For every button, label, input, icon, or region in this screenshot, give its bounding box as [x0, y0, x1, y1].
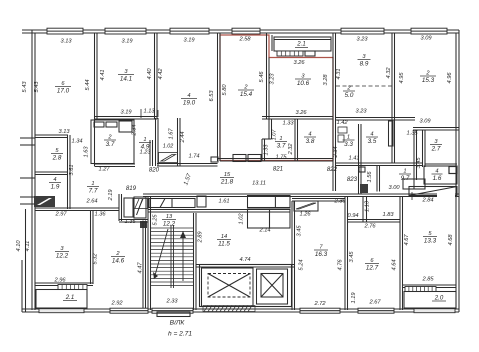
svg-text:h = 2.71: h = 2.71: [168, 331, 192, 338]
svg-text:4.67: 4.67: [404, 234, 410, 246]
stair steps: [151, 225, 194, 288]
svg-text:2.19: 2.19: [108, 189, 114, 202]
svg-text:3.26: 3.26: [295, 110, 307, 116]
room14 bottom wall: [196, 264, 295, 266]
wall 9.7 left: [376, 166, 378, 192]
svg-text:1.6: 1.6: [433, 175, 442, 182]
door gap room5: [437, 193, 455, 197]
svg-text:4: 4: [53, 177, 56, 183]
wall red rooms1-4 left: [268, 119, 270, 139]
svg-text:1.27: 1.27: [98, 167, 110, 173]
wall room3/room4: [154, 33, 156, 119]
svg-text:3.09: 3.09: [420, 36, 432, 42]
outer right wall: [455, 33, 457, 309]
tick room5 door: [411, 192, 413, 200]
svg-text:0.94: 0.94: [347, 213, 358, 219]
wall rooms 12.2/14.6: [90, 211, 92, 285]
svg-text:2.1: 2.1: [65, 294, 74, 301]
hall 819 closet a: [124, 198, 133, 217]
svg-text:8.9: 8.9: [360, 61, 369, 68]
svg-text:2.1: 2.1: [296, 41, 305, 48]
wall room5/room4s: [35, 171, 68, 173]
svg-text:4.95: 4.95: [399, 72, 405, 84]
svg-text:2.0: 2.0: [434, 295, 444, 302]
svg-text:2.89: 2.89: [198, 231, 204, 244]
svg-text:2.58: 2.58: [238, 37, 251, 43]
wall entry left apt: [95, 163, 136, 165]
door box near red: [211, 157, 218, 162]
svg-text:4.11: 4.11: [25, 241, 31, 252]
svg-text:1.9: 1.9: [51, 184, 60, 191]
duct wall 4.9: [149, 140, 151, 166]
svg-text:2.14: 2.14: [258, 228, 270, 234]
svg-text:1.36: 1.36: [94, 212, 106, 218]
svg-text:14.6: 14.6: [112, 258, 125, 265]
svg-text:3.45: 3.45: [349, 251, 355, 263]
rooms 3.3/3.5 divider: [358, 124, 360, 194]
svg-text:1.41: 1.41: [348, 156, 359, 162]
svg-text:2.76: 2.76: [363, 224, 376, 230]
svg-text:3.00: 3.00: [388, 185, 400, 191]
stair arrow vertical: [182, 231, 184, 281]
wall below room3: [95, 116, 158, 118]
svg-text:4.40: 4.40: [147, 68, 153, 80]
window bottom 14.6: [110, 308, 148, 313]
svg-text:3.28: 3.28: [323, 74, 329, 86]
corridor top wall: [143, 193, 459, 195]
toilet door hatch: [159, 153, 178, 163]
wall room6 bottom: [35, 134, 68, 136]
window bottom stairs: [152, 308, 193, 313]
wall rooms 8.9/15.3: [391, 33, 393, 163]
svg-text:4: 4: [435, 168, 438, 174]
svg-text:15.4: 15.4: [240, 91, 253, 98]
door box 823: [359, 167, 365, 172]
closet 2.14 b: [270, 209, 291, 228]
window top-3 (3.19): [170, 28, 209, 34]
red apartment outline: [220, 35, 333, 161]
outer bottom wall: [22, 308, 459, 310]
svg-text:1.19: 1.19: [351, 292, 357, 304]
svg-text:3.13: 3.13: [60, 39, 72, 45]
closet small: [248, 196, 291, 208]
toilet wall right: [177, 118, 179, 166]
svg-text:3.19: 3.19: [183, 38, 195, 44]
svg-text:4.68: 4.68: [448, 234, 454, 246]
svg-text:821: 821: [273, 166, 283, 173]
room 2.7 walls: [422, 130, 424, 167]
svg-text:2.96: 2.96: [53, 278, 66, 284]
svg-text:13.11: 13.11: [252, 181, 266, 187]
wall red bottom black: [218, 158, 334, 160]
svg-text:2.67: 2.67: [368, 300, 381, 306]
svg-text:4.76: 4.76: [338, 259, 344, 271]
wall red rooms1/4 divider: [294, 119, 296, 161]
svg-text:4.32: 4.32: [386, 67, 392, 79]
niche wall 824: [362, 197, 364, 223]
svg-text:2.97: 2.97: [54, 212, 67, 218]
left wall tick 2: [20, 144, 35, 146]
svg-text:1.23: 1.23: [139, 150, 151, 156]
svg-text:1.75: 1.75: [275, 155, 287, 161]
svg-text:4.10: 4.10: [16, 240, 22, 252]
svg-text:1.33: 1.33: [282, 121, 294, 127]
left door dark box: [34, 196, 55, 207]
svg-text:5.44: 5.44: [85, 79, 91, 90]
svg-text:1.61: 1.61: [218, 199, 229, 205]
svg-text:1.67: 1.67: [169, 128, 175, 140]
bottom rail right: [414, 309, 455, 313]
sill marks 12.2: [58, 285, 87, 290]
svg-text:6.53: 6.53: [209, 90, 215, 102]
wall pocket 823: [413, 130, 415, 180]
wall red room2/room3: [266, 33, 268, 119]
svg-text:14: 14: [221, 234, 227, 240]
window top-5 (3.23): [341, 28, 384, 34]
window top-6 (3.09): [411, 28, 447, 34]
svg-text:12.2: 12.2: [56, 253, 69, 260]
svg-text:2.8: 2.8: [52, 155, 62, 162]
shaft bottom hatch: [203, 306, 255, 312]
svg-text:823: 823: [347, 176, 358, 183]
balcony 2.1 window marks: [277, 51, 303, 56]
dashed divider 8.9/5.0: [336, 85, 392, 87]
balcony 2.0 box: [404, 292, 456, 309]
svg-text:1: 1: [279, 136, 282, 142]
room 1.6 box: [424, 166, 457, 184]
svg-text:1: 1: [347, 134, 350, 140]
sill marks 13.3: [405, 287, 436, 292]
corridor door rect: [197, 196, 206, 207]
svg-text:5.43: 5.43: [34, 81, 40, 93]
room6 top wall: [348, 219, 401, 221]
svg-text:1.02: 1.02: [163, 144, 174, 150]
svg-text:4: 4: [370, 131, 373, 137]
svg-text:5.46: 5.46: [259, 71, 265, 83]
svg-text:5.24: 5.24: [299, 259, 305, 270]
svg-text:3.23: 3.23: [356, 37, 368, 43]
svg-text:4: 4: [308, 131, 311, 137]
svg-text:1.63: 1.63: [84, 146, 90, 158]
room7 closet: [294, 201, 318, 211]
svg-text:1: 1: [143, 137, 146, 143]
outer lower-left wall line: [25, 209, 27, 312]
svg-text:820: 820: [149, 167, 160, 174]
elevator 2: [257, 269, 288, 304]
svg-text:1: 1: [91, 181, 94, 187]
svg-text:1.07: 1.07: [272, 129, 278, 141]
svg-text:1.83: 1.83: [382, 212, 394, 218]
dark door boxes: [360, 184, 368, 193]
corridor bottom wall left: [148, 209, 290, 211]
tick under 1.13: [140, 109, 142, 118]
svg-text:3.7: 3.7: [277, 143, 286, 150]
svg-text:4: 4: [187, 93, 190, 99]
elevator 1: [202, 268, 254, 307]
svg-text:4.74: 4.74: [239, 257, 250, 263]
bath fixtures right: [338, 127, 347, 133]
svg-text:5.25: 5.25: [153, 214, 159, 226]
svg-text:4.64: 4.64: [392, 259, 398, 270]
hall 819 pocket: [118, 194, 120, 221]
svg-text:1.26: 1.26: [299, 212, 311, 218]
window top-2 (3.19): [105, 28, 146, 34]
svg-text:4.96: 4.96: [447, 72, 453, 84]
svg-text:1.35: 1.35: [406, 131, 418, 137]
wall below 8.9/5.0: [336, 117, 416, 119]
svg-text:13: 13: [166, 214, 173, 220]
corridor closet: [149, 199, 195, 208]
wall room4 bottom / toilet: [157, 163, 218, 165]
porch below wall: [157, 312, 190, 317]
svg-text:12.2: 12.2: [163, 221, 176, 228]
svg-text:3.3: 3.3: [344, 141, 353, 148]
bathroom fixtures: [94, 122, 104, 127]
svg-text:4.31: 4.31: [336, 68, 342, 79]
svg-text:21.8: 21.8: [220, 179, 234, 186]
toilet wall left: [155, 118, 157, 166]
svg-text:3.19: 3.19: [121, 39, 133, 45]
svg-text:19.0: 19.0: [183, 100, 196, 107]
svg-text:4.42: 4.42: [158, 68, 164, 80]
svg-text:3.26: 3.26: [293, 60, 305, 66]
svg-text:2.84: 2.84: [421, 198, 433, 204]
svg-text:5.80: 5.80: [222, 84, 228, 96]
svg-text:819: 819: [126, 185, 137, 192]
room 9.7 top wall: [336, 162, 423, 164]
svg-text:5.43: 5.43: [22, 81, 28, 93]
svg-text:16.3: 16.3: [315, 251, 328, 258]
wall hall bottom-left: [35, 207, 119, 209]
left wall tick 4: [20, 196, 35, 198]
hall 819 closet b: [134, 197, 146, 218]
svg-text:2.39: 2.39: [333, 199, 346, 205]
window top-1 (3.13): [47, 28, 83, 34]
svg-text:4.41: 4.41: [100, 69, 106, 80]
bottom rail left: [39, 309, 84, 313]
elevator shaft box: [200, 265, 292, 307]
svg-text:3.8: 3.8: [306, 138, 315, 145]
door swing 2.0: [409, 187, 457, 196]
svg-text:2.34: 2.34: [132, 124, 138, 136]
red kitchen fixtures: [233, 155, 246, 162]
window bottom room7: [300, 308, 340, 313]
room7 left wall: [291, 201, 293, 310]
wall left rooms vertical: [67, 135, 69, 209]
window bottom 12.7: [358, 308, 394, 313]
svg-text:1.02: 1.02: [239, 213, 245, 225]
svg-text:3.5: 3.5: [368, 138, 377, 145]
svg-text:3.09: 3.09: [419, 119, 431, 125]
room7 right wall: [344, 197, 346, 311]
svg-text:2.44: 2.44: [180, 131, 186, 143]
svg-text:3.19: 3.19: [120, 110, 132, 116]
svg-text:2.34: 2.34: [333, 146, 339, 158]
window sill 13.3: [403, 284, 457, 286]
wall rooms 12.7/13.3: [399, 197, 401, 311]
svg-text:11.5: 11.5: [218, 241, 230, 248]
svg-text:15.3: 15.3: [422, 77, 435, 84]
wall room4 right / red left: [217, 33, 219, 161]
svg-text:1.42: 1.42: [336, 120, 348, 126]
stair room left wall: [147, 197, 149, 311]
svg-text:2.7: 2.7: [431, 146, 441, 153]
svg-text:3.45: 3.45: [297, 225, 303, 237]
balcony 2.1 box: [274, 37, 331, 51]
svg-text:2.33: 2.33: [165, 299, 178, 305]
svg-text:4.47: 4.47: [138, 262, 144, 274]
svg-text:13.3: 13.3: [424, 238, 437, 245]
svg-text:10.6: 10.6: [297, 80, 310, 87]
svg-text:3.61: 3.61: [69, 164, 75, 175]
svg-text:7.7: 7.7: [89, 188, 98, 195]
room7 top wall: [292, 198, 345, 200]
svg-text:3.13: 3.13: [58, 129, 70, 135]
outer top wall: [22, 29, 459, 31]
svg-text:12.7: 12.7: [366, 265, 379, 272]
dark door box hall: [140, 221, 147, 228]
svg-text:1.33: 1.33: [264, 144, 270, 156]
left wall tick 3: [20, 177, 35, 179]
svg-text:3.23: 3.23: [270, 73, 276, 85]
svg-text:2.85: 2.85: [421, 277, 434, 283]
outer left wall: [31, 30, 33, 310]
svg-text:14.1: 14.1: [120, 76, 132, 83]
svg-text:1.13: 1.13: [143, 109, 155, 115]
window sill 12.2: [35, 282, 93, 284]
small duct box: [449, 167, 457, 174]
corridor closet hatch door: [134, 199, 148, 209]
svg-text:3.23: 3.23: [355, 109, 367, 115]
svg-text:1.74: 1.74: [188, 154, 199, 160]
svg-text:5.32: 5.32: [93, 253, 99, 265]
wall rooms 14.6 right: [142, 221, 144, 311]
svg-text:2.72: 2.72: [313, 301, 326, 307]
balcony 2.1 bottom box: [36, 290, 87, 309]
stair arrow diagonal: [154, 229, 168, 279]
left wall tick 1: [20, 137, 35, 139]
closet 2.14 a: [248, 209, 270, 228]
wall room6/room3: [94, 33, 96, 166]
svg-text:2.32: 2.32: [288, 143, 294, 156]
svg-text:822: 822: [327, 166, 338, 173]
svg-text:1: 1: [403, 168, 406, 174]
svg-text:1.13: 1.13: [365, 200, 371, 212]
door leaf right apt: [389, 121, 394, 146]
svg-text:5.0: 5.0: [345, 92, 354, 99]
left wall tick 5: [20, 203, 35, 205]
closet 9.7: [403, 179, 425, 189]
svg-text:1.34: 1.34: [71, 139, 82, 145]
bathroom 3.7 box: [91, 120, 134, 164]
svg-text:15: 15: [224, 172, 231, 178]
wall red right black: [332, 33, 334, 191]
stair room right wall: [193, 213, 195, 310]
svg-text:17.0: 17.0: [57, 88, 70, 95]
svg-text:3.7: 3.7: [106, 141, 115, 148]
wall below 15.3: [413, 127, 459, 129]
svg-text:2.64: 2.64: [85, 199, 97, 205]
svg-text:2.92: 2.92: [110, 301, 123, 307]
svg-text:1.56: 1.56: [367, 171, 373, 183]
svg-text:В/ЛК: В/ЛК: [170, 320, 186, 327]
window top-4 (2.58): [232, 28, 260, 34]
wall red below room3: [262, 116, 333, 118]
